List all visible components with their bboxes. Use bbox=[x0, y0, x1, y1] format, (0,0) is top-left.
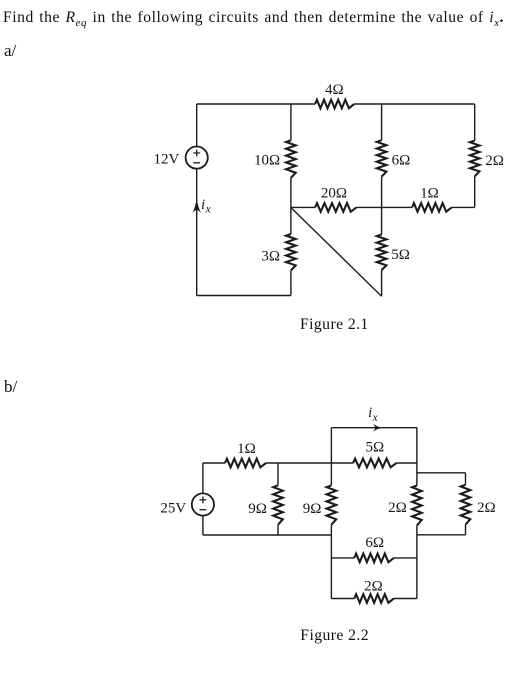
wire second 9ohm column top bbox=[330, 428, 332, 486]
title bbox=[3, 9, 504, 29]
svg-text:20Ω: 20Ω bbox=[321, 185, 347, 201]
wire source column top (fig2.2) bbox=[202, 463, 204, 493]
svg-text:5Ω: 5Ω bbox=[391, 247, 410, 263]
wire middle column between 10ohm and mid rail bbox=[290, 178, 292, 234]
voltage source 25V circle bbox=[192, 493, 214, 515]
source plus sign (fig2.2) bbox=[200, 497, 207, 504]
current arrow i_x (fig2.1, up) bbox=[192, 200, 201, 213]
wire top rail with i_x (fig2.2) bbox=[331, 427, 417, 429]
resistor R 3ohm bbox=[286, 234, 296, 270]
wire left column above source bbox=[196, 104, 198, 147]
wire middle-right column bottom (fig2.2) bbox=[416, 526, 418, 599]
wire 5ohm rail seg1 bbox=[331, 462, 353, 464]
wire middle-right column top (fig2.2) bbox=[416, 428, 418, 486]
wire 2ohm bottom rail seg2 (fig2.2) bbox=[394, 598, 417, 600]
resistor R 1ohm (fig2.1) bbox=[412, 203, 452, 212]
wire bottom rail (fig2.1) bbox=[197, 295, 291, 297]
wire 6ohm rail seg1 (fig2.2) bbox=[331, 557, 354, 559]
svg-text:25V: 25V bbox=[160, 501, 186, 517]
wire 6ohm column top bbox=[381, 104, 383, 140]
svg-text:12V: 12V bbox=[153, 152, 179, 168]
wire middle rail segment 1 bbox=[291, 206, 315, 208]
wire first 9ohm column bottom bbox=[277, 525, 279, 535]
wire right column bottom (fig2.1) bbox=[474, 176, 476, 207]
wire right box top rail (fig2.2) bbox=[417, 472, 466, 474]
resistor R 2ohm right (fig2.2) bbox=[461, 485, 471, 525]
resistor R 20ohm bbox=[315, 203, 356, 212]
svg-text:1Ω: 1Ω bbox=[237, 441, 256, 457]
wire middle column below 3ohm bbox=[290, 270, 292, 295]
voltage source 12V circle bbox=[186, 147, 208, 169]
svg-text:6Ω: 6Ω bbox=[365, 535, 384, 551]
wire first 9ohm column top bbox=[277, 463, 279, 485]
svg-text:ix: ix bbox=[368, 405, 378, 424]
svg-text:5Ω: 5Ω bbox=[365, 439, 384, 455]
wire top rail left segment (fig2.1) bbox=[197, 103, 315, 105]
wire second 9ohm column bottom bbox=[330, 525, 332, 599]
svg-text:2Ω: 2Ω bbox=[388, 500, 407, 516]
resistor R 10ohm bbox=[286, 140, 296, 178]
svg-text:6Ω: 6Ω bbox=[392, 153, 411, 169]
source minus sign (fig2.2) bbox=[200, 509, 207, 511]
svg-text:9Ω: 9Ω bbox=[248, 501, 267, 517]
svg-text:1Ω: 1Ω bbox=[420, 185, 439, 201]
svg-text:2Ω: 2Ω bbox=[485, 153, 504, 169]
wire middle rail segment 3 bbox=[452, 206, 475, 208]
resistor R 4ohm on top rail bbox=[315, 100, 354, 109]
wire right column top (fig2.1) bbox=[474, 104, 476, 141]
wire middle column top segment bbox=[290, 104, 292, 140]
caption Figure 2.1 bbox=[300, 316, 369, 334]
part label b/ bbox=[4, 377, 17, 397]
wire right column bottom (fig2.2) bbox=[465, 525, 467, 535]
caption Figure 2.2 bbox=[300, 627, 369, 645]
svg-text:9Ω: 9Ω bbox=[303, 501, 322, 517]
part label a/ bbox=[4, 41, 16, 61]
svg-text:2Ω: 2Ω bbox=[477, 500, 496, 516]
wire top-left rail seg1 (fig2.2) bbox=[203, 462, 225, 464]
resistor R 6ohm bbox=[377, 140, 387, 176]
resistor R 2ohm (fig2.1 right) bbox=[470, 141, 480, 177]
source plus sign bbox=[193, 150, 200, 157]
wire top-left rail seg2 (fig2.2) bbox=[266, 462, 331, 464]
resistor R 1ohm (fig2.2) bbox=[225, 459, 266, 468]
resistor R 9ohm first bbox=[273, 485, 283, 524]
current arrow i_x (fig2.2, right) bbox=[372, 423, 382, 432]
wire top rail right segment (fig2.1) bbox=[354, 103, 475, 105]
wire 6ohm column bottom bbox=[381, 177, 383, 235]
wire diagonal from mid node to 5ohm bottom bbox=[291, 208, 382, 297]
resistor R 5ohm (fig2.2) bbox=[353, 459, 396, 468]
resistor R 6ohm (fig2.2) bbox=[354, 554, 394, 563]
wire source column bottom (fig2.2) bbox=[202, 516, 204, 535]
wire 5ohm rail seg2 bbox=[397, 462, 417, 464]
svg-text:ix: ix bbox=[201, 197, 211, 216]
svg-text:4Ω: 4Ω bbox=[325, 82, 344, 98]
svg-text:3Ω: 3Ω bbox=[261, 249, 280, 265]
resistor R 5ohm bbox=[377, 235, 387, 271]
resistor R 2ohm middle (fig2.2) bbox=[412, 486, 422, 526]
resistor R 2ohm bottom (fig2.2) bbox=[354, 594, 394, 603]
svg-text:2Ω: 2Ω bbox=[364, 579, 383, 595]
svg-text:10Ω: 10Ω bbox=[254, 153, 280, 169]
wire middle rail segment 2 bbox=[356, 206, 412, 208]
wire 6ohm rail seg2 (fig2.2) bbox=[394, 557, 417, 559]
wire right box bottom rail (fig2.2) bbox=[417, 534, 466, 536]
wire bottom-left rail (fig2.2) bbox=[203, 534, 332, 536]
wire left column below source bbox=[196, 169, 198, 296]
wire 2ohm bottom rail seg1 (fig2.2) bbox=[331, 598, 354, 600]
wire 5ohm column below bbox=[381, 270, 383, 296]
resistor R 9ohm second bbox=[327, 485, 337, 524]
wire right column top (fig2.2) bbox=[465, 473, 467, 485]
source minus sign bbox=[193, 162, 200, 164]
